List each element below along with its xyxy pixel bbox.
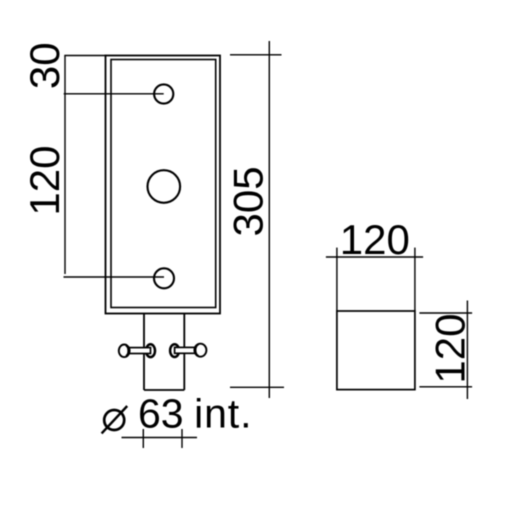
hole top small (154, 84, 173, 103)
tube bottom edge (144, 389, 184, 391)
bottom dim tick right (181, 429, 183, 448)
305 bottom extension line (230, 386, 284, 388)
bottom dim line under 63 (122, 437, 198, 439)
square right extension top (419, 312, 472, 314)
bolt left (119, 344, 155, 357)
square section view (337, 311, 415, 390)
305 dimension line vertical (268, 41, 270, 398)
tube left wall (143, 314, 145, 391)
305 top extension line (230, 54, 282, 56)
svg-text:120: 120 (427, 314, 474, 384)
hole middle large (148, 170, 181, 203)
square right extension bottom (419, 386, 472, 388)
square right dim line (466, 301, 468, 400)
square top extension right (414, 248, 416, 311)
plate outer rectangle (106, 56, 221, 314)
plate inner rectangle (111, 60, 216, 308)
svg-text:305: 305 (225, 166, 272, 236)
diameter symbol slash (102, 406, 128, 433)
leader line to bottom hole (64, 276, 165, 278)
svg-text:120: 120 (21, 146, 68, 216)
svg-text:30: 30 (21, 42, 68, 89)
square top extension left (336, 248, 338, 311)
svg-text:120: 120 (340, 216, 410, 263)
bottom dim tick left (142, 429, 144, 448)
square top dim line (326, 256, 423, 258)
svg-text:63: 63 (138, 391, 184, 437)
left dimension rail vertical (64, 56, 66, 275)
svg-text:int.: int. (194, 391, 252, 437)
tube right wall (183, 314, 185, 391)
leader line to top hole (64, 93, 164, 95)
diameter symbol circle (104, 410, 124, 430)
top extension line left of plate (64, 55, 106, 57)
bolt right (170, 344, 206, 357)
hole bottom small (154, 268, 174, 288)
